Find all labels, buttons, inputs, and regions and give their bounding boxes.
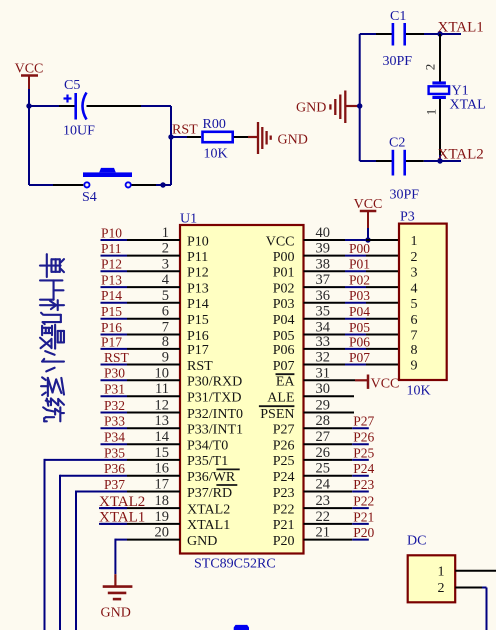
svg-text:21: 21 [316,525,331,541]
pin 22 (P21) [304,509,369,525]
svg-text:23: 23 [316,493,331,509]
switch S4 [83,168,132,188]
svg-text:XTAL2: XTAL2 [99,494,145,510]
svg-text:30PF: 30PF [383,54,413,69]
svg-text:7: 7 [411,329,418,344]
crystal Y1 pin 2 lead [439,34,441,82]
svg-text:ALE: ALE [267,391,294,406]
junction node XTAL2 [437,158,442,163]
svg-text:P34/T0: P34/T0 [187,439,228,454]
connector DC body [408,555,456,602]
power port VCC (reset circuit) [15,62,44,90]
svg-text:9: 9 [411,359,418,374]
svg-text:P26: P26 [353,430,374,445]
svg-text:P01: P01 [349,257,370,272]
overline RD [216,484,237,486]
svg-text:31: 31 [316,365,331,381]
svg-text:30: 30 [316,381,331,397]
svg-text:30PF: 30PF [390,188,420,203]
svg-text:P21: P21 [353,509,374,524]
svg-text:RST: RST [187,359,213,374]
overline WR [216,468,239,470]
svg-text:P23: P23 [273,486,295,501]
pin 27 (P26) [304,429,369,445]
pin 11 (P31/TXD) [101,381,181,397]
svg-text:P07: P07 [349,350,370,365]
svg-text:36: 36 [316,288,331,304]
svg-text:P06: P06 [273,343,295,358]
pin 39 (P00) [304,241,400,257]
svg-text:P17: P17 [187,343,209,358]
svg-text:P11: P11 [101,241,122,256]
pin 28 (P27) [304,413,369,429]
wire [28,89,30,106]
svg-text:39: 39 [316,241,331,257]
capacitor C5 pin lead [87,105,142,107]
power ground GND (crystal) [296,91,360,124]
pin 30 (ALE) [304,381,355,397]
pin 40 (VCC) [304,225,400,241]
svg-text:XTAL1: XTAL1 [187,518,230,533]
svg-text:VCC: VCC [15,62,44,77]
svg-text:PSEN: PSEN [260,407,294,422]
svg-text:Y1: Y1 [452,84,469,99]
svg-text:5: 5 [411,297,418,312]
resistor R00 pin lead [187,136,201,138]
pin 26 (P25) [304,445,369,461]
svg-text:19: 19 [155,509,170,525]
svg-text:P34: P34 [104,430,125,445]
capacitor C1 [393,23,405,46]
svg-text:8: 8 [162,334,169,350]
svg-text:3: 3 [162,256,169,272]
svg-text:P16: P16 [187,329,209,344]
svg-text:2: 2 [411,250,418,265]
signal ground GND (chip) [101,574,133,620]
crystal Y1 pin 1 lead [439,99,441,155]
svg-text:P03: P03 [273,297,295,312]
svg-text:P30: P30 [104,366,125,381]
svg-text:33: 33 [316,334,331,350]
wire [171,136,187,138]
pin 25 (P24) [304,461,369,477]
overline PSEN [259,405,295,407]
wire net P35 [45,459,128,630]
svg-text:S4: S4 [82,190,97,205]
pin 18 (XTAL2) [101,493,181,509]
pin 15 (P35/T1) [127,445,180,461]
svg-text:RST: RST [104,350,130,365]
svg-text:VCC: VCC [354,197,383,212]
svg-text:P12: P12 [101,257,122,272]
pin 7 (P16) [101,320,181,336]
svg-text:P13: P13 [101,273,122,288]
capacitor C5 [64,93,87,120]
svg-text:P03: P03 [349,288,370,303]
capacitor C2 pin lead [406,160,424,162]
svg-text:P31/TXD: P31/TXD [187,391,241,406]
svg-text:1: 1 [424,109,439,116]
pin 33 (P06) [304,334,400,350]
pin 24 (P23) [304,477,369,493]
svg-text:P11: P11 [187,250,208,265]
svg-text:18: 18 [155,493,170,509]
pin 4 (P13) [101,272,181,288]
svg-text:C5: C5 [64,78,80,93]
pin 35 (P04) [304,304,400,320]
svg-text:P12: P12 [187,266,209,281]
svg-text:P02: P02 [273,281,295,296]
wire [156,184,171,186]
pin 8 (P17) [101,334,181,350]
svg-text:29: 29 [316,398,331,414]
svg-text:P24: P24 [273,470,295,485]
wire [360,33,376,35]
junction [26,103,31,108]
svg-text:P15: P15 [101,304,122,319]
svg-text:P23: P23 [353,477,374,492]
svg-text:P36/WR: P36/WR [187,470,236,485]
wire net XTAL1 [99,523,127,525]
svg-text:16: 16 [155,461,170,477]
junction node XTAL1 [437,31,442,36]
svg-text:20: 20 [155,525,170,541]
svg-text:P35: P35 [104,445,125,460]
pin 2 (P11) [101,241,181,257]
wire [359,34,361,161]
svg-text:12: 12 [155,398,170,414]
svg-text:P13: P13 [187,281,209,296]
svg-text:P10: P10 [187,234,209,249]
wire [28,106,30,185]
svg-text:38: 38 [316,256,331,272]
svg-text:6: 6 [411,313,418,328]
wire [170,106,172,185]
svg-text:1: 1 [411,234,418,249]
svg-text:P02: P02 [349,273,370,288]
svg-text:13: 13 [155,413,170,429]
IC U1 STC89C52RC body [180,225,304,554]
wire [482,588,487,630]
DC pin 2 lead [455,587,482,589]
svg-text:10: 10 [155,365,170,381]
svg-text:P31: P31 [104,382,125,397]
wire [141,105,171,107]
svg-text:VCC: VCC [266,234,295,249]
pin 13 (P33/INT1) [101,413,181,429]
svg-text:P32: P32 [104,398,125,413]
svg-text:10K: 10K [407,384,431,399]
svg-text:4: 4 [411,281,418,296]
wire [439,155,441,161]
svg-text:P36: P36 [104,461,125,476]
junction [357,103,362,108]
pin 6 (P15) [101,304,181,320]
switch S4 pin lead [53,184,83,186]
svg-text:P14: P14 [101,288,122,303]
svg-text:P37: P37 [104,477,125,492]
wire GND (pin 20) [115,539,127,575]
svg-text:P01: P01 [273,266,295,281]
svg-text:37: 37 [316,272,331,288]
svg-text:P27: P27 [273,423,295,438]
svg-text:P00: P00 [273,250,295,265]
pin 16 (P36/WR) [127,461,180,477]
svg-text:GND: GND [296,101,326,116]
svg-text:STC89C52RC: STC89C52RC [194,557,276,572]
svg-text:P20: P20 [273,534,295,549]
svg-text:P35/T1: P35/T1 [187,454,228,469]
svg-text:P22: P22 [353,494,374,509]
power ground GND (reset) [248,122,308,154]
pin 9 (RST) [101,350,181,366]
capacitor C5 pin lead [59,105,75,107]
junction [160,182,165,187]
connector P3 body [399,224,447,380]
svg-text:P33/INT1: P33/INT1 [187,423,243,438]
svg-text:P05: P05 [349,320,370,335]
capacitor C2 pin lead [376,160,392,162]
capacitor C1 pin lead [376,33,392,35]
capacitor C1 pin lead [406,33,424,35]
junction [365,237,370,242]
pin 20 (GND) [127,525,180,541]
svg-text:P00: P00 [349,241,370,256]
svg-text:9: 9 [162,350,169,366]
switch actuator (bottom, partial) [234,625,249,630]
svg-text:8: 8 [411,343,418,358]
svg-text:DC: DC [407,534,426,549]
resistor R00 pin lead [234,136,248,138]
svg-text:28: 28 [316,413,331,429]
svg-text:P14: P14 [187,297,209,312]
wire [424,160,461,162]
svg-text:GND: GND [101,606,131,621]
pin 32 (P07) [304,350,400,366]
svg-text:P25: P25 [273,454,295,469]
pin 17 (P37/RD) [127,477,180,493]
svg-text:32: 32 [316,350,331,366]
pin 12 (P32/INT0) [101,398,181,414]
pin 23 (P22) [304,493,369,509]
svg-text:P17: P17 [101,334,122,349]
svg-text:XTAL1: XTAL1 [99,510,145,526]
svg-text:P20: P20 [353,525,374,540]
svg-text:P30/RXD: P30/RXD [187,375,242,390]
svg-text:GND: GND [187,534,217,549]
svg-text:14: 14 [155,429,170,445]
svg-text:P24: P24 [353,461,374,476]
svg-text:XTAL2: XTAL2 [438,147,484,163]
svg-text:P27: P27 [353,414,374,429]
overline EA [276,373,295,375]
svg-text:2: 2 [162,241,169,257]
svg-text:25: 25 [316,461,331,477]
svg-text:XTAL2: XTAL2 [187,502,230,517]
svg-text:P21: P21 [273,518,295,533]
svg-text:11: 11 [155,381,169,397]
pin 36 (P03) [304,288,400,304]
pin 37 (P02) [304,272,400,288]
svg-text:R00: R00 [203,117,226,132]
svg-text:10UF: 10UF [63,124,95,139]
svg-text:XTAL1: XTAL1 [438,20,484,36]
svg-text:P16: P16 [101,320,122,335]
svg-text:P04: P04 [349,304,370,319]
svg-text:XTAL: XTAL [450,98,486,113]
wire [360,160,376,162]
wire [29,184,53,186]
wire net P37 [76,491,127,630]
svg-text:15: 15 [155,445,170,461]
svg-text:P3: P3 [400,210,415,225]
svg-text:VCC: VCC [371,376,400,391]
wire [29,105,59,107]
power port VCC (above P3) [354,197,383,228]
svg-text:P07: P07 [273,359,295,374]
crystal Y1 [429,81,450,99]
wire net P36 [60,475,127,630]
svg-text:17: 17 [155,477,170,493]
resistor R00 [203,132,233,142]
svg-text:P10: P10 [101,225,122,240]
capacitor C2 [393,150,405,176]
svg-text:C2: C2 [389,136,405,151]
svg-text:5: 5 [162,288,169,304]
svg-text:P32/INT0: P32/INT0 [187,407,243,422]
svg-text:P37/RD: P37/RD [187,486,232,501]
svg-text:2: 2 [423,64,438,71]
svg-text:3: 3 [411,266,418,281]
pin 19 (XTAL1) [101,509,181,525]
svg-text:GND: GND [278,133,308,148]
svg-text:4: 4 [162,272,170,288]
svg-text:P26: P26 [273,439,295,454]
wire net XTAL2 [99,507,127,509]
pin 5 (P14) [101,288,181,304]
svg-text:RST: RST [172,123,198,138]
svg-text:EA: EA [276,375,296,390]
svg-text:P05: P05 [273,329,295,344]
pin 34 (P05) [304,320,400,336]
svg-text:27: 27 [316,429,331,445]
svg-text:C1: C1 [390,9,406,24]
svg-text:40: 40 [316,225,331,241]
title text (vertical): dan-pian-ji-zui-xiao-xi-tong [40,254,64,421]
pin 3 (P12) [101,256,181,272]
pin 29 (PSEN) [304,398,355,414]
svg-text:P22: P22 [273,502,295,517]
svg-text:22: 22 [316,509,331,525]
switch S4 pin lead [132,184,157,186]
svg-text:P06: P06 [349,334,370,349]
svg-text:10K: 10K [204,147,228,162]
DC pin 1 lead [455,570,496,572]
svg-text:P04: P04 [273,313,295,328]
wire [424,33,461,35]
svg-text:1: 1 [162,225,169,241]
svg-text:6: 6 [162,304,169,320]
svg-text:26: 26 [316,445,331,461]
svg-text:2: 2 [438,581,445,596]
power port VCC (EA pin) [355,375,399,392]
svg-text:35: 35 [316,304,331,320]
svg-text:P33: P33 [104,414,125,429]
svg-text:P25: P25 [353,445,374,460]
pin 14 (P34/T0) [101,429,181,445]
pin 38 (P01) [304,256,400,272]
pin 31 (EA) [304,365,356,381]
svg-text:P15: P15 [187,313,209,328]
pin 1 (P10) [101,225,181,241]
node RST junction [168,134,173,139]
svg-text:24: 24 [316,477,331,493]
pin 10 (P30/RXD) [101,365,181,381]
svg-text:1: 1 [438,564,445,579]
pin 21 (P20) [304,525,369,541]
wire [367,228,369,240]
